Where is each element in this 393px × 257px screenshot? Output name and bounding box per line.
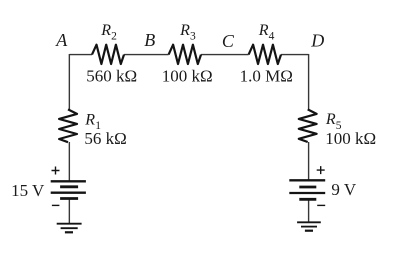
svg-text:560 kΩ: 560 kΩ [86, 67, 137, 86]
battery 15 V plate short bottom [60, 197, 78, 200]
wire R1 to left battery [68, 142, 70, 181]
svg-text:R: R [179, 22, 190, 39]
svg-text:R: R [100, 22, 111, 39]
minus sign right battery [317, 204, 325, 206]
minus sign left battery [52, 204, 60, 206]
resistor R1 [59, 109, 77, 142]
svg-text:R: R [325, 111, 336, 128]
resistor R2 [92, 45, 124, 64]
ground left [57, 224, 82, 233]
battery 9 V plate short bottom [299, 198, 316, 201]
wire left battery to ground [68, 199, 70, 224]
svg-text:B: B [144, 30, 155, 50]
wire node D down to R5 [308, 54, 310, 110]
battery 9 V plate long top [289, 179, 325, 181]
ground right [297, 222, 321, 230]
battery 15 V plate short [60, 185, 78, 188]
svg-text:2: 2 [111, 31, 117, 43]
resistor R5 [299, 109, 317, 142]
resistor R4 [249, 45, 281, 64]
battery 15 V plate long bottom [51, 192, 86, 194]
wire node A down to R1 [68, 54, 70, 110]
svg-text:15 V: 15 V [11, 181, 45, 200]
svg-text:A: A [55, 30, 68, 50]
wire R4 to D corner [281, 54, 309, 56]
wire R2 to R3 (node B) [124, 54, 169, 56]
svg-text:9 V: 9 V [331, 180, 356, 199]
svg-text:R: R [258, 22, 269, 39]
plus sign right battery [317, 166, 325, 174]
svg-text:D: D [310, 31, 324, 51]
wire A to R2 [69, 54, 92, 56]
battery 9 V plate short [299, 186, 316, 189]
wire R3 to R4 (node C) [201, 54, 249, 56]
svg-text:100 kΩ: 100 kΩ [162, 67, 213, 86]
svg-text:4: 4 [269, 31, 275, 43]
svg-text:R: R [84, 111, 95, 128]
svg-text:100 kΩ: 100 kΩ [325, 129, 376, 148]
plus sign left battery [52, 167, 60, 175]
wire right battery to ground [308, 200, 310, 222]
svg-text:3: 3 [190, 31, 196, 43]
battery 9 V plate long bottom [289, 192, 325, 194]
svg-text:1.0 MΩ: 1.0 MΩ [240, 67, 293, 86]
svg-text:56 kΩ: 56 kΩ [84, 129, 126, 148]
resistor R3 [169, 45, 201, 64]
svg-text:C: C [222, 31, 235, 51]
wire R5 to right battery [308, 142, 310, 180]
battery 15 V plate long top [51, 180, 86, 182]
